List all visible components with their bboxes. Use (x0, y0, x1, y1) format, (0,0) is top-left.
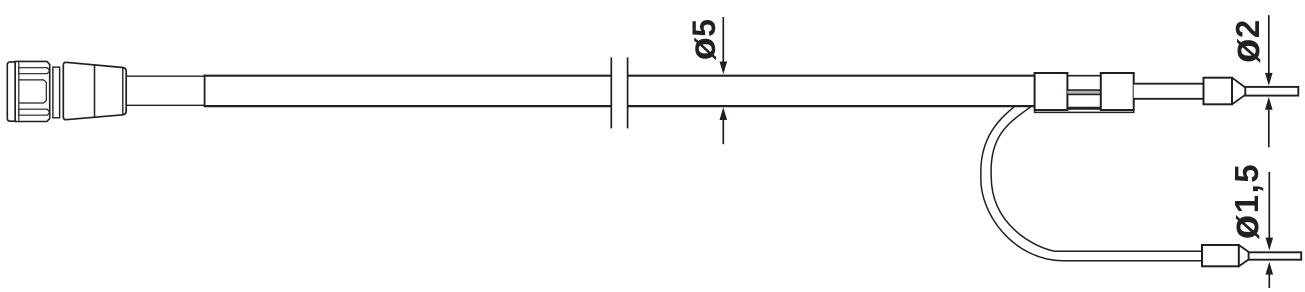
svg-text:ø1,5: ø1,5 (1223, 163, 1267, 239)
svg-text:ø5: ø5 (681, 19, 723, 61)
ø2 probe tube (1134, 84, 1204, 99)
fitting middle top line (1067, 75, 1100, 77)
cable bottom line left of break (204, 105, 612, 107)
break line 1 (610, 57, 612, 128)
wire ø2 (1245, 87, 1298, 96)
nut groove lower (19, 109, 50, 115)
nut middle recess (19, 80, 47, 103)
fitting outer bottom line (1035, 110, 1134, 112)
fitting right block (1101, 73, 1134, 110)
thin cable bottom line (127, 104, 204, 106)
thin cable top line (127, 75, 204, 77)
dimension ø5 lower arrow (722, 119, 724, 144)
break line 2 (627, 57, 629, 128)
cone (top probe) (1232, 78, 1245, 105)
nut inner rim line (18, 62, 20, 120)
sensor loop cable (tube drawn first, covered later by cable/fitting) (981, 104, 1202, 261)
connector cone housing (63, 62, 126, 119)
dimension ø1.5 lower arrow (1268, 274, 1270, 289)
cable top line left of break (204, 75, 612, 77)
ferrule (top) (1204, 78, 1233, 105)
dimension ø2 upper arrow (1268, 15, 1270, 74)
ferrule (bottom) (1202, 245, 1239, 266)
dimension ø1.5 upper arrow (1268, 172, 1270, 239)
connector neck (53, 67, 60, 118)
dimension ø5 upper arrow (722, 17, 724, 63)
fitting middle bottom thick line (1067, 107, 1100, 110)
cone divider line (94, 65, 96, 118)
cable bottom line right of break (628, 105, 1036, 107)
connector knurled nut (15, 61, 50, 121)
wire ø1.5 (1249, 252, 1302, 259)
connector back cap (7, 62, 15, 121)
dimension ø2 lower arrow (1268, 109, 1270, 148)
thick cable (white fill under) (204, 75, 1035, 107)
nut groove upper (19, 68, 50, 74)
fitting left block (1035, 73, 1068, 110)
svg-text:ø2: ø2 (1224, 19, 1268, 63)
cone (bottom probe) (1239, 245, 1249, 266)
fitting white fill (1035, 73, 1134, 113)
cable top line right of break (628, 75, 1036, 77)
fitting middle seam (1067, 90, 1100, 94)
cable left end line (204, 75, 206, 108)
cone right cap line (122, 68, 124, 115)
